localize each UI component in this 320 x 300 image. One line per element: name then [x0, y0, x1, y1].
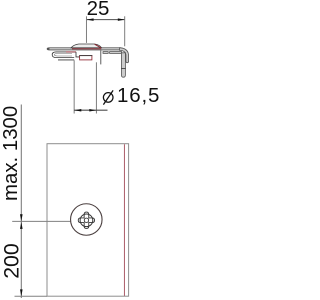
arrow down (end of max.1300) [20, 214, 23, 221]
cover sheet (side view) [47, 48, 121, 50]
diameter symbol [103, 93, 113, 103]
dimension line 16,5 [74, 109, 107, 111]
extension line right [124, 16, 126, 46]
screw center circle [84, 218, 88, 222]
tray rail horizontal leg [103, 52, 108, 54]
cover rolled left end [47, 48, 49, 50]
plan view red clamp edge line [123, 144, 125, 296]
screw head circle [80, 214, 93, 227]
screw shaft edge line [100, 51, 102, 65]
extension line left (centerline) [85, 16, 87, 43]
clamp strap bottom [58, 59, 74, 61]
dimension line 25 [86, 19, 125, 21]
clamp block (nut) [80, 56, 92, 60]
plan view rectangle (cover) [47, 144, 129, 297]
svg-text:16,5: 16,5 [117, 84, 160, 107]
extension line right for dia 16,5 [95, 62, 97, 113]
screw phillips cross [78, 212, 94, 228]
clamp loop red accent [66, 51, 76, 53]
arrow down (end of 200) [20, 289, 23, 296]
cover right flange (elbow) [120, 48, 129, 63]
clamp loop (left hook) [52, 52, 76, 58]
extension line left for dia 16,5 [73, 60, 75, 113]
svg-text:25: 25 [87, 0, 110, 20]
svg-text:max. 1300: max. 1300 [0, 106, 22, 201]
clamp step jog [76, 52, 80, 57]
outer circle (turnbuckle) [71, 204, 103, 236]
vertical dimension line [20, 105, 22, 299]
svg-text:200: 200 [0, 243, 23, 279]
arrow up (start of 200) [20, 222, 23, 229]
clamp dome red base line [72, 48, 101, 50]
rail seam tick [121, 68, 126, 70]
clamp dome red right slope [95, 44, 101, 48]
bottom tick [15, 295, 48, 297]
tray rail vertical web [121, 53, 125, 77]
clamp dome head [71, 44, 102, 48]
leader line to screw [12, 220, 80, 222]
